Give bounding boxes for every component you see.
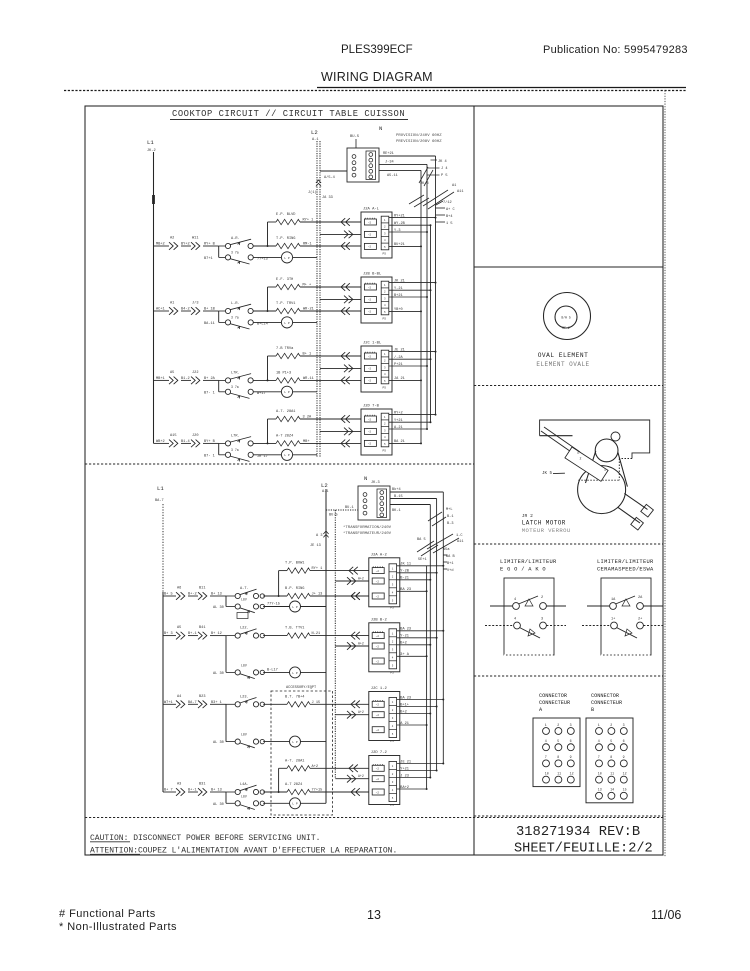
- svg-text:JA 33: JA 33: [322, 196, 333, 200]
- cooktop section title: [170, 109, 408, 120]
- svg-text:4: 4: [514, 618, 516, 622]
- latch motor caption: [522, 513, 571, 534]
- svg-text:ACCESSORY/EQPT: ACCESSORY/EQPT: [286, 685, 317, 690]
- resistor upper row2 bake: [268, 278, 362, 290]
- title block part number: [516, 825, 640, 840]
- svg-text:B+-1: B+-1: [188, 789, 197, 793]
- svg-text:BU-5: BU-5: [350, 135, 360, 139]
- svg-text:A+2: A+2: [312, 765, 318, 769]
- svg-text:B1-4: B1-4: [181, 440, 190, 444]
- svg-text:BY+ B: BY+ B: [204, 440, 216, 444]
- divider above caution note: [85, 817, 663, 819]
- label BU-5 upper with lead: [350, 135, 360, 148]
- svg-text:77+13: 77+13: [257, 258, 268, 262]
- resistor upper row3 surface: [276, 371, 361, 383]
- svg-text:JR 2: JR 2: [522, 513, 533, 519]
- svg-text:5: 5: [610, 739, 612, 743]
- svg-text:B-3: B-3: [447, 522, 453, 526]
- header model number: [341, 44, 413, 56]
- switch lower row3: [213, 695, 264, 748]
- resistor lower row1 main element: [285, 587, 369, 600]
- svg-text:2: 2: [541, 596, 543, 600]
- interlock connector arrows lower row2: [176, 626, 226, 639]
- svg-text:BA-7: BA-7: [155, 499, 164, 503]
- svg-text:7.B TRVa: 7.B TRVa: [276, 347, 294, 351]
- svg-text:3 7a: 3 7a: [231, 448, 239, 452]
- title WIRING DIAGRAM: [321, 70, 433, 84]
- svg-text:B+ 13: B+ 13: [211, 789, 222, 793]
- svg-text:A3: A3: [177, 783, 181, 787]
- svg-text:P5: P5: [383, 317, 387, 320]
- supply rating note upper: [396, 133, 442, 144]
- svg-text:M+ +: M+ +: [303, 284, 312, 288]
- svg-text:/-2A: /-2A: [394, 355, 403, 360]
- svg-text:A+2: A+2: [358, 710, 364, 714]
- svg-text:BU-5: BU-5: [329, 514, 338, 518]
- svg-text:B+21: B+21: [394, 294, 403, 298]
- svg-text:L8V: L8V: [241, 663, 247, 667]
- svg-text:P5: P5: [383, 386, 387, 389]
- svg-text:N: N: [379, 126, 382, 132]
- svg-text:J(1): J(1): [308, 190, 317, 195]
- interlock connector arrows upper row4: [169, 434, 219, 447]
- svg-text:A5a: A5a: [443, 548, 450, 552]
- wire switch to junction lower row4: [263, 768, 287, 793]
- svg-text:B+ 1B: B+ 1B: [204, 308, 216, 312]
- svg-text:2+: 2+: [638, 618, 642, 622]
- wire switch to resistor lower row3: [263, 703, 287, 705]
- svg-text:8: 8: [557, 755, 559, 759]
- svg-text:L1: L1: [157, 485, 164, 492]
- svg-text:A-T.: A-T.: [240, 587, 249, 591]
- svg-text:Y-21: Y-21: [400, 635, 409, 639]
- svg-text:WB+2: WB+2: [156, 440, 165, 444]
- svg-text:B1-2: B1-2: [181, 377, 190, 381]
- wire L2 to terminal block upper: [320, 171, 347, 180]
- svg-text:B+ 5: B+ 5: [164, 593, 173, 597]
- svg-text:~2: ~2: [368, 246, 372, 249]
- svg-text:JK 21: JK 21: [394, 279, 405, 283]
- right panel divider above title block: [474, 815, 663, 817]
- latch motor switch label JK5: [542, 472, 553, 476]
- svg-text:~2: ~2: [368, 431, 372, 434]
- arrows on block wires upper row1: [341, 218, 353, 250]
- svg-text:N-21: N-21: [312, 632, 321, 636]
- svg-text:L2: L2: [321, 482, 328, 489]
- svg-text:~2: ~2: [368, 299, 372, 302]
- svg-text:A15: A15: [170, 434, 176, 438]
- svg-text:B23: B23: [199, 695, 205, 699]
- svg-text:L P: L P: [284, 322, 290, 325]
- svg-text:1: 1: [604, 468, 606, 472]
- wire L2 to terminal block lower: [326, 506, 358, 518]
- indicator lamp upper row3: [253, 386, 317, 397]
- svg-text:9: 9: [623, 755, 625, 759]
- svg-text:W+17: W+17: [257, 392, 266, 396]
- svg-text:J2A A-L: J2A A-L: [363, 208, 380, 212]
- caution note english: [90, 834, 320, 843]
- block output wires upper row1: [389, 214, 437, 247]
- svg-text:BY+2: BY+2: [181, 243, 190, 247]
- svg-text:A1: A1: [452, 184, 456, 188]
- svg-text:L-R.: L-R.: [231, 302, 240, 306]
- svg-text:J 23: J 23: [400, 774, 409, 778]
- svg-text:AL 30: AL 30: [213, 672, 224, 676]
- svg-text:E: E: [578, 451, 580, 455]
- svg-text:A+2: A+2: [358, 577, 364, 581]
- svg-text:J 15: J 15: [312, 701, 321, 705]
- svg-text:RM-1: RM-1: [303, 243, 312, 247]
- svg-text:L P: L P: [284, 257, 290, 260]
- connector block upper row1: [361, 208, 392, 259]
- wire bottom pin lower row1: [351, 592, 360, 600]
- svg-text:BA-7: BA-7: [188, 701, 197, 705]
- indicator lamp lower row1: [237, 601, 326, 619]
- accessory dashed outline: [271, 685, 333, 815]
- svg-text:~2: ~2: [368, 443, 372, 446]
- leader lines upper right: [409, 167, 454, 209]
- svg-text:LIMITER/LIMITEUR: LIMITER/LIMITEUR: [597, 559, 654, 565]
- svg-text:Y-21: Y-21: [394, 287, 403, 291]
- svg-text:B4-2: B4-2: [181, 308, 190, 312]
- svg-text:J20: J20: [192, 434, 198, 438]
- arrow marker on L1 upper: [152, 195, 155, 204]
- svg-text:WY-2B: WY-2B: [394, 222, 406, 226]
- limiter ceramaspeed box: [582, 559, 663, 655]
- node L1 upper: [147, 139, 156, 153]
- svg-text:A11: A11: [457, 540, 463, 544]
- svg-text:B31: B31: [199, 783, 205, 787]
- svg-text:BA 23: BA 23: [400, 628, 411, 632]
- connector B caption: [591, 693, 622, 713]
- svg-text:B41: B41: [199, 626, 205, 630]
- svg-text:JA 21: JA 21: [394, 377, 405, 381]
- svg-text:L8V: L8V: [241, 598, 247, 602]
- svg-text:B7+1: B7+1: [204, 257, 213, 261]
- svg-text:11: 11: [610, 771, 614, 775]
- svg-text:~2: ~2: [376, 704, 380, 707]
- svg-text:5: 5: [557, 739, 559, 743]
- svg-text:8: 8: [610, 755, 612, 759]
- svg-text:# Functional Parts: # Functional Parts: [59, 908, 156, 920]
- svg-text:LIMITER/LIMITEUR: LIMITER/LIMITEUR: [500, 559, 557, 565]
- svg-text:L2: L2: [311, 129, 318, 136]
- bus vertical a upper: [435, 156, 437, 415]
- connector block upper row4: [361, 405, 392, 456]
- switch upper row1: [204, 237, 268, 264]
- svg-text:B: B: [591, 707, 594, 713]
- svg-text:2: 2: [610, 723, 612, 727]
- svg-text:JE 21: JE 21: [394, 348, 405, 352]
- wire L1 upper vertical: [153, 152, 155, 443]
- svg-text:Bk+4: Bk+4: [392, 487, 401, 492]
- svg-text:BK-1: BK-1: [392, 509, 401, 513]
- svg-text:JR 17: JR 17: [257, 455, 268, 459]
- svg-text:L7R.: L7R.: [231, 371, 240, 375]
- resistor lower row4 main element: [285, 783, 369, 796]
- svg-text:B+ 13: B+ 13: [211, 593, 222, 597]
- svg-text:A-1: A-1: [322, 490, 328, 494]
- svg-text:JK-3: JK-3: [371, 481, 380, 485]
- leader lines lower right: [417, 512, 459, 569]
- connector A caption: [539, 693, 570, 713]
- svg-text:P5: P5: [390, 740, 394, 743]
- svg-text:~2: ~2: [376, 778, 380, 781]
- svg-text:P5: P5: [383, 252, 387, 255]
- connector block lower row2: [369, 618, 400, 674]
- arrows on block wires upper row3: [341, 352, 353, 384]
- svg-text:W11: W11: [192, 237, 198, 241]
- label J11 near L2 upper: [308, 190, 333, 200]
- svg-text:6: 6: [623, 739, 625, 743]
- svg-text:A-7. 28A1: A-7. 28A1: [276, 410, 295, 414]
- connector B: [586, 718, 633, 803]
- svg-text:14: 14: [610, 788, 614, 792]
- svg-text:J/3: J/3: [192, 301, 198, 306]
- svg-text:CONNECTOR: CONNECTOR: [591, 693, 619, 699]
- svg-text:BA 21: BA 21: [394, 440, 405, 444]
- block output wires lower row3: [397, 696, 445, 726]
- wire terminal output 1 lower: [390, 487, 443, 492]
- right panel divider above connectors: [474, 675, 663, 677]
- svg-text:6: 6: [570, 739, 572, 743]
- svg-text:MOTEUR VERROU: MOTEUR VERROU: [522, 527, 571, 534]
- bus vertical d lower: [426, 566, 428, 789]
- svg-text:*TRANSFORMATION/240V: *TRANSFORMATION/240V: [343, 525, 392, 530]
- svg-text:M+L: M+L: [446, 508, 452, 512]
- svg-text:RY+ B: RY+ B: [204, 243, 216, 247]
- wire switch to resistor lower row2: [263, 635, 287, 637]
- svg-text:~2: ~2: [368, 221, 372, 224]
- svg-text:8/A 5: 8/A 5: [561, 316, 571, 320]
- svg-text:L4A.: L4A.: [240, 783, 249, 787]
- oval element symbol: [544, 293, 591, 340]
- svg-text:PROVISION/240V 60HZ: PROVISION/240V 60HZ: [396, 133, 442, 138]
- svg-text:BA 23: BA 23: [400, 696, 411, 700]
- svg-text:RF 2: RF 2: [562, 326, 570, 330]
- svg-text:JK 5: JK 5: [542, 472, 553, 476]
- svg-text:10: 10: [598, 771, 602, 775]
- svg-text:MB+2: MB+2: [156, 243, 165, 247]
- svg-text:T.P. BOW1: T.P. BOW1: [285, 562, 304, 566]
- oval element caption: [536, 352, 589, 368]
- connector block upper row3: [361, 342, 392, 393]
- svg-text:A+ C: A+ C: [446, 208, 455, 212]
- svg-text:7: 7: [598, 755, 600, 759]
- bus L2 upper dotted pair: [317, 141, 320, 457]
- svg-text:A 21: A 21: [400, 722, 409, 726]
- svg-text:AL 30: AL 30: [213, 606, 224, 610]
- svg-text:3+ A: 3+ A: [400, 653, 409, 657]
- block output wires upper row2: [389, 279, 437, 312]
- svg-text:L8V: L8V: [241, 794, 247, 798]
- svg-text:A/5-4: A/5-4: [324, 175, 335, 180]
- svg-text:1+: 1+: [611, 618, 615, 622]
- svg-text:B+2: B+2: [400, 710, 406, 714]
- svg-text:Y+21: Y+21: [400, 767, 409, 771]
- bus vertical d upper: [420, 170, 422, 443]
- stub wires to JK labels upper: [427, 160, 440, 175]
- switch lower row4: [213, 783, 264, 810]
- caution note french: [90, 847, 397, 856]
- bus vertical c upper: [426, 164, 428, 429]
- svg-text:AL 30: AL 30: [213, 803, 224, 807]
- svg-text:A-R.: A-R.: [231, 237, 240, 241]
- svg-text:A-7 28Z4: A-7 28Z4: [276, 434, 293, 438]
- vertical divider between circuit area and right panel: [473, 106, 475, 855]
- svg-text:WIRING DIAGRAM: WIRING DIAGRAM: [321, 70, 433, 84]
- svg-text:* Non-Illustrated Parts: * Non-Illustrated Parts: [59, 921, 177, 933]
- svg-text:5E+1: 5E+1: [418, 558, 427, 562]
- svg-text:E.F. 3TH: E.F. 3TH: [276, 278, 293, 282]
- svg-text:CONNECTOR: CONNECTOR: [539, 693, 567, 699]
- svg-text:J2D 7-B: J2D 7-B: [363, 405, 380, 409]
- right margin labels upper: [420, 160, 463, 226]
- svg-text:B+L14: B+L14: [257, 323, 268, 327]
- svg-text:PLES399ECF: PLES399ECF: [341, 44, 413, 56]
- svg-text:Publication No: 5995479283: Publication No: 5995479283: [543, 44, 688, 56]
- wire mid pin upper row2: [320, 298, 361, 300]
- indicator lamp upper row4: [253, 449, 317, 460]
- svg-text:CERAMASPEED/ESWA: CERAMASPEED/ESWA: [597, 567, 654, 573]
- svg-text:L22.: L22.: [240, 627, 249, 631]
- svg-text:B+ 7: B+ 7: [164, 789, 173, 793]
- svg-text:BA-11: BA-11: [204, 322, 215, 326]
- wire switch to junction lower row1: [263, 571, 287, 597]
- svg-text:L23.: L23.: [240, 695, 249, 699]
- svg-text:WR-21: WR-21: [303, 308, 314, 312]
- svg-text:1-C: 1-C: [456, 534, 462, 538]
- svg-text:B-1: B-1: [447, 515, 453, 519]
- wire lower row1 from L1: [163, 593, 176, 597]
- wire switch to junction upper row4: [253, 419, 276, 444]
- svg-text:77+15: 77+15: [312, 789, 323, 793]
- svg-text:~2: ~2: [376, 768, 380, 771]
- connector block lower row4: [369, 751, 400, 807]
- indicator lamp lower row4: [263, 798, 326, 809]
- svg-text:13: 13: [367, 908, 381, 922]
- wire L2 lower vertical: [325, 489, 327, 803]
- svg-text:BA B: BA B: [446, 555, 455, 559]
- svg-text:MB+1: MB+1: [156, 377, 165, 381]
- svg-text:BA 23: BA 23: [400, 588, 411, 592]
- svg-text:1B P1+3: 1B P1+3: [276, 371, 291, 375]
- svg-text:B+ 1: B+ 1: [303, 353, 312, 357]
- svg-text:AL 30: AL 30: [213, 741, 224, 745]
- switch upper row2: [204, 302, 268, 329]
- svg-text:P5: P5: [390, 804, 394, 807]
- svg-text:~2: ~2: [376, 645, 380, 648]
- arrows on L2 lower: [310, 531, 329, 548]
- arrows on block wires upper row2: [341, 283, 353, 315]
- node L2 lower: [321, 482, 328, 494]
- svg-text:RY+ 1: RY+ 1: [312, 567, 323, 571]
- resistor upper row3 bake: [268, 347, 362, 359]
- svg-text:B+4: B+4: [446, 215, 452, 219]
- main frame: [85, 106, 663, 855]
- svg-text:~2: ~2: [368, 368, 372, 371]
- svg-text:ELEMENT OVALE: ELEMENT OVALE: [536, 361, 589, 368]
- svg-text:3 7a: 3 7a: [231, 251, 239, 255]
- wire mid pin upper row4: [320, 430, 361, 432]
- bus vertical a lower: [442, 492, 444, 764]
- svg-text:B+1: B+1: [447, 562, 453, 566]
- svg-text:318271934 REV:B: 318271934 REV:B: [516, 825, 640, 840]
- svg-text:3: 3: [570, 723, 572, 727]
- wire L1 lower vertical: [162, 504, 164, 792]
- svg-text:B+ 3: B+ 3: [164, 632, 173, 636]
- svg-text:A-7 28Z4: A-7 28Z4: [285, 783, 302, 787]
- resistor lower row4 upper element: [279, 759, 369, 772]
- svg-text:RY+ 1: RY+ 1: [303, 219, 314, 223]
- block output wires lower row4: [397, 760, 445, 790]
- right panel divider above limiters: [474, 543, 663, 545]
- svg-text:12: 12: [570, 771, 574, 775]
- page right dashed border: [664, 91, 666, 858]
- wire mid pin upper row3: [320, 367, 361, 369]
- svg-text:~2: ~2: [368, 286, 372, 289]
- title block sheet number: [514, 842, 653, 857]
- svg-text:B.P. RING: B.P. RING: [285, 587, 304, 591]
- svg-text:B-L17: B-L17: [267, 668, 278, 672]
- svg-text:7: 7: [545, 755, 547, 759]
- svg-text:11/06: 11/06: [651, 908, 681, 922]
- interlock connector arrows upper row1: [169, 237, 219, 250]
- svg-text:A5: A5: [170, 371, 174, 375]
- svg-text:A 3: A 3: [316, 534, 322, 538]
- wire upper row1 from L1: [154, 243, 170, 247]
- svg-text:CONNECTEUR: CONNECTEUR: [591, 700, 622, 706]
- svg-text:4: 4: [514, 598, 516, 602]
- svg-text:L P: L P: [292, 741, 298, 744]
- svg-text:RY+21: RY+21: [394, 214, 405, 218]
- connector A: [533, 718, 580, 787]
- svg-text:YB+0: YB+0: [394, 308, 403, 312]
- svg-text:Y-2B: Y-2B: [400, 570, 409, 574]
- svg-text:~2: ~2: [376, 595, 380, 598]
- svg-text:Y+21: Y+21: [394, 419, 403, 423]
- svg-text:JK-2: JK-2: [147, 149, 156, 153]
- svg-text:AC+1: AC+1: [156, 308, 165, 312]
- interlock connector arrows lower row3: [176, 695, 226, 708]
- svg-text:A11: A11: [457, 190, 463, 194]
- wire terminal output 3 lower: [390, 505, 430, 514]
- resistor lower row2 main element: [285, 627, 369, 640]
- svg-text:E.P. BLVD: E.P. BLVD: [276, 213, 295, 217]
- block output wires upper row4: [389, 411, 437, 444]
- svg-text:L P: L P: [284, 454, 290, 457]
- interlock connector arrows upper row3: [169, 371, 219, 384]
- svg-text:A-7. 28A1: A-7. 28A1: [285, 759, 304, 763]
- wire mid pin upper row1: [320, 233, 361, 235]
- svg-text:~2: ~2: [368, 418, 372, 421]
- svg-text:B-21: B-21: [400, 577, 409, 581]
- svg-text:JK 4: JK 4: [438, 160, 447, 164]
- svg-text:~2: ~2: [376, 729, 380, 732]
- svg-text:LATCH MOTOR: LATCH MOTOR: [522, 520, 566, 527]
- wire lower row2 from L1: [163, 632, 176, 636]
- svg-text:3: 3: [623, 723, 625, 727]
- node L2 upper: [311, 129, 318, 142]
- footer functional parts note: [59, 908, 177, 933]
- block output wires lower row1: [397, 563, 445, 593]
- svg-text:9: 9: [570, 755, 572, 759]
- right panel divider above latch motor: [474, 385, 663, 387]
- wire lower row3 from L1: [163, 701, 176, 705]
- svg-text:L7R.: L7R.: [231, 434, 240, 438]
- wire mid pin lower row3: [335, 710, 369, 718]
- indicator lamp lower row2: [263, 667, 326, 678]
